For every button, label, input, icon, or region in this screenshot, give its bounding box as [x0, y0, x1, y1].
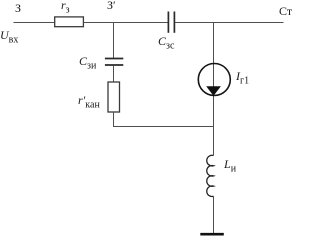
node label Ст (drain)	[279, 5, 292, 17]
wire: input lead from U_vx to resistor r_з	[14, 22, 56, 24]
value label C_зс	[158, 35, 174, 47]
value label r_з	[61, 0, 70, 11]
capacitor C1 (C_зс) plates	[167, 12, 169, 33]
current source arrow	[206, 86, 221, 96]
resistor R2 (r'_кан)	[108, 82, 120, 112]
value label L_и	[224, 158, 236, 170]
ground	[200, 233, 224, 236]
wire: drain branch vertical	[213, 23, 215, 156]
wire: C_зи to r'_кан	[113, 66, 115, 83]
wire: resistor to node З'	[83, 22, 168, 24]
node label З'	[107, 0, 116, 11]
value label r'_кан	[78, 94, 100, 106]
inductor L1 (L_и)	[207, 155, 214, 196]
current source U1 (I_г1) circle	[198, 64, 230, 96]
label U_вх	[0, 29, 18, 41]
value label I_г1	[236, 70, 249, 82]
wire: capacitor to drain terminal Ст	[175, 22, 284, 24]
resistor R1 (r_з)	[55, 17, 84, 27]
value label C_зи	[79, 55, 96, 67]
wire: r'_кан down and right to source node	[114, 112, 214, 127]
wire: inductor to ground	[213, 196, 215, 234]
node label З (gate)	[15, 2, 21, 14]
wire: node З' vertical down to C_зи	[113, 23, 115, 59]
capacitor C2 (C_зи) plates	[105, 58, 123, 60]
